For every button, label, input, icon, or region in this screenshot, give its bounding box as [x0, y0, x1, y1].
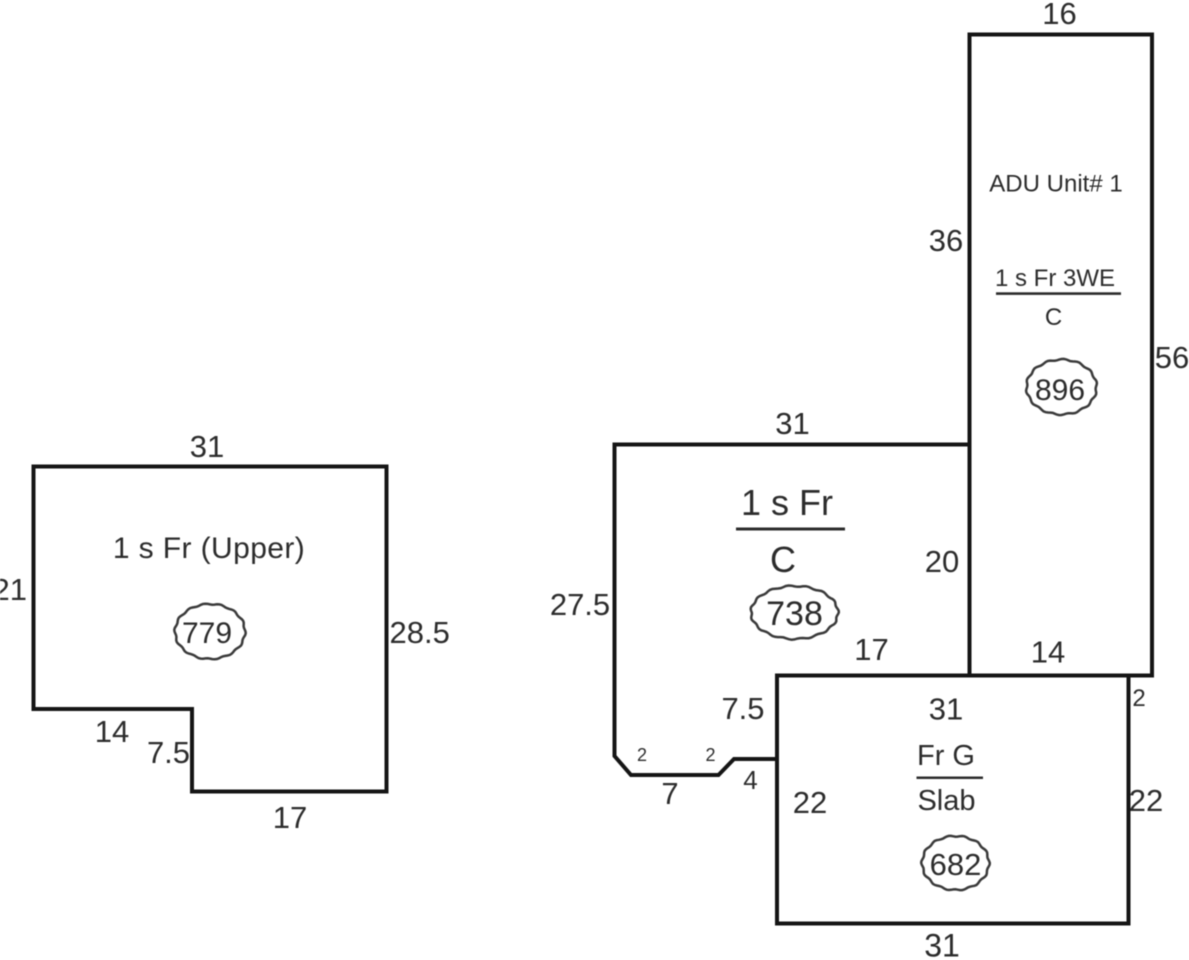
svg-text:14: 14 — [95, 714, 129, 749]
svg-text:Slab: Slab — [917, 785, 975, 817]
svg-text:C: C — [770, 539, 796, 580]
svg-text:682: 682 — [930, 847, 982, 882]
divider line under 1 s Fr — [736, 528, 845, 531]
svg-text:7.5: 7.5 — [721, 691, 764, 726]
svg-text:2: 2 — [705, 745, 715, 765]
svg-text:896: 896 — [1035, 374, 1085, 407]
svg-text:C: C — [1045, 304, 1062, 331]
wall outline: 1 s Fr middle shape — [615, 445, 971, 776]
svg-text:36: 36 — [929, 223, 963, 258]
svg-text:1 s Fr 3WE: 1 s Fr 3WE — [995, 265, 1115, 292]
svg-text:17: 17 — [854, 632, 888, 667]
svg-text:ADU Unit# 1: ADU Unit# 1 — [989, 171, 1122, 198]
svg-text:56: 56 — [1155, 340, 1189, 375]
svg-text:1 s Fr: 1 s Fr — [741, 482, 833, 523]
wall outline: Fr G rectangle — [777, 676, 1129, 924]
svg-text:31: 31 — [924, 928, 960, 960]
wall outline: ADU tall rectangle — [970, 35, 1153, 676]
svg-text:1 s Fr (Upper): 1 s Fr (Upper) — [113, 532, 305, 565]
svg-text:2: 2 — [637, 745, 647, 765]
svg-text:20: 20 — [925, 544, 959, 579]
svg-text:14: 14 — [1031, 635, 1065, 670]
svg-text:21: 21 — [0, 572, 27, 607]
svg-text:7: 7 — [661, 776, 678, 811]
area ellipse 682 — [921, 836, 990, 890]
svg-text:31: 31 — [929, 692, 963, 727]
svg-text:4: 4 — [743, 765, 757, 795]
svg-text:31: 31 — [775, 406, 809, 441]
svg-text:22: 22 — [1129, 783, 1163, 818]
svg-text:738: 738 — [766, 595, 823, 633]
area ellipse 779 — [174, 604, 245, 660]
svg-text:17: 17 — [273, 800, 307, 835]
svg-text:31: 31 — [190, 429, 224, 464]
divider line under 1 s Fr 3WE — [996, 292, 1121, 295]
area ellipse 738 — [751, 586, 839, 640]
area ellipse 896 — [1026, 359, 1097, 415]
svg-text:27.5: 27.5 — [550, 587, 610, 622]
svg-text:779: 779 — [182, 617, 232, 650]
svg-text:7.5: 7.5 — [147, 735, 190, 770]
svg-text:Fr G: Fr G — [917, 740, 975, 772]
wall outline: 1 s Fr (Upper) L-shape — [34, 467, 387, 792]
svg-text:28.5: 28.5 — [390, 615, 450, 650]
divider line under Fr G — [917, 777, 984, 780]
svg-text:16: 16 — [1042, 0, 1076, 31]
svg-text:2: 2 — [1132, 685, 1145, 712]
svg-text:22: 22 — [793, 785, 827, 820]
